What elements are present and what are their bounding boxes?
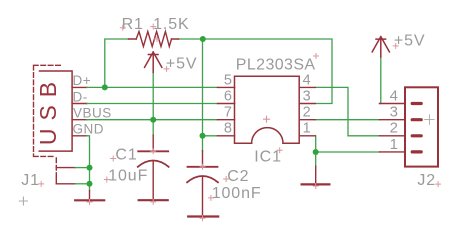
wire +5V right stem to J2 pin4 (380, 57, 381, 104)
ground bar below IC1 pin1 junction (302, 183, 330, 185)
wire IC pin4 to J2 pin2 (315, 87, 379, 135)
capacitor C2 top lead (202, 151, 204, 167)
ground pin below USB shield (89, 191, 91, 201)
pin D- stub (72, 103, 87, 105)
wire VBUS row (87, 119, 218, 121)
pin D+ stub (72, 86, 87, 88)
ground bar below USB shield (75, 199, 104, 201)
svg-text:5: 5 (224, 72, 232, 88)
10uF label origin cross (104, 177, 109, 182)
IC1 pin 3 stub (299, 103, 315, 105)
connector J1 USB body (39, 71, 72, 151)
wire shield stub 1 (75, 167, 89, 169)
USB gnd origin cross (87, 200, 92, 205)
J2 part origin cross (425, 115, 435, 125)
wire pin1 junction to ground (315, 152, 317, 166)
J2 pad 1 (412, 150, 421, 153)
resistor R1 leads (129, 38, 179, 40)
wire R1 junction down to pin8 junction (202, 39, 204, 136)
svg-text:100nF: 100nF (212, 185, 262, 202)
IC1 pin 4 stub (299, 86, 315, 88)
connector J1 shield corner (55, 179, 57, 184)
op IC1 PL2303SA box (235, 76, 300, 143)
C2 gnd origin cross (200, 216, 205, 221)
svg-text:+5V: +5V (166, 55, 198, 72)
wire +5V left stem (152, 72, 154, 119)
1.5K label origin cross (151, 24, 156, 29)
wire IC pin2 to J2 pin3 (315, 119, 379, 121)
power +5V left arrow (145, 52, 162, 72)
svg-text:C2: C2 (227, 168, 249, 185)
junction node D+/R1 (102, 84, 108, 90)
capacitor C1 bottom plate arc (138, 161, 169, 167)
+5V left origin cross (164, 66, 169, 71)
+5V right origin cross (393, 43, 398, 48)
svg-text:J2: J2 (417, 172, 436, 189)
wire VBUS junction down to C1 (152, 120, 154, 136)
IC1 notch arc (252, 128, 283, 144)
capacitor C2 top plate (188, 166, 218, 168)
junction node shield 1 (87, 165, 93, 171)
IC1 part origin cross (264, 116, 270, 122)
J1 part origin cross (19, 197, 27, 205)
svg-text:10uF: 10uF (108, 168, 148, 185)
ground below C1 (139, 199, 168, 201)
svg-text:1: 1 (390, 136, 398, 153)
svg-text:VBUS: VBUS (73, 105, 112, 120)
svg-text:+5V: +5V (394, 33, 426, 50)
shield pin stub 2 (56, 183, 75, 185)
IC1 label origin cross (277, 148, 282, 153)
resistor R1 body (136, 32, 171, 47)
svg-text:8: 8 (224, 121, 232, 137)
C2 origin cross (200, 164, 205, 169)
J2 pad 2 (412, 134, 421, 137)
connector J1 shield dashed stub column (55, 158, 57, 179)
IC1 pin 7 stub (218, 119, 235, 121)
svg-text:4: 4 (390, 87, 398, 104)
power +5V right arrow (372, 37, 389, 57)
pin VBUS stub (72, 119, 87, 121)
resistor R1 origin cross (155, 37, 160, 42)
IC1 pin 2 stub (299, 119, 315, 121)
svg-text:7: 7 (224, 105, 232, 121)
connector J2 box (405, 87, 438, 166)
svg-text:USB: USB (35, 74, 61, 145)
J2 pad 4 (412, 102, 421, 105)
wire pin8 junction to IC pin8 (203, 135, 218, 137)
ground below C2 (188, 215, 218, 217)
J2 pin 2 stub (380, 135, 406, 137)
PL2303SA label origin cross (314, 54, 319, 59)
capacitor C2 bottom plate arc (187, 176, 218, 182)
wire IC pin1 down (315, 136, 317, 152)
wire R1 right to IC pin3 corner (179, 39, 333, 104)
IC1 gnd origin cross (313, 184, 318, 189)
svg-text:IC1: IC1 (254, 149, 282, 166)
wire D- row (87, 103, 218, 105)
capacitor C1 top lead (152, 135, 154, 151)
capacitor C2 bottom lead (202, 177, 204, 217)
svg-text:1.5K: 1.5K (153, 16, 190, 33)
svg-text:D+: D+ (73, 73, 92, 88)
J2 pin 1 stub (380, 151, 406, 153)
C2 label origin cross (224, 177, 229, 182)
wire pin8 junction down to C2 (202, 136, 204, 151)
J2 label origin cross (436, 182, 441, 187)
connector J1 shield dashed outline (34, 65, 63, 156)
IC1 pin 8 stub (218, 135, 235, 137)
J2 pad 3 (412, 118, 421, 121)
svg-text:1: 1 (303, 121, 311, 137)
wire D+ row (87, 86, 218, 88)
wire GND to corner (87, 136, 90, 168)
IC1 pin 6 stub (218, 103, 235, 105)
C1 label origin cross (111, 156, 116, 161)
IC1 pin 1 stub (299, 135, 315, 137)
svg-text:C1: C1 (115, 146, 137, 163)
100nF label origin cross (208, 195, 213, 200)
svg-text:3: 3 (390, 104, 398, 121)
svg-text:R1: R1 (122, 16, 144, 33)
svg-text:2: 2 (303, 105, 311, 121)
J2 pin 4 stub (380, 103, 406, 105)
R1 label origin cross (120, 25, 125, 30)
C1 gnd origin cross (151, 199, 156, 204)
junction node VBUS/+5V/C1 (150, 117, 156, 123)
shield pin stub 1 (56, 167, 75, 169)
pin GND stub (72, 135, 87, 137)
wire D+ up to R1 (105, 39, 129, 87)
capacitor C1 top plate (138, 150, 168, 152)
junction node shield 2 (87, 181, 93, 187)
svg-text:PL2303SA: PL2303SA (236, 56, 316, 73)
wire pin1 junction to J2 pin1 (316, 151, 380, 153)
capacitor C1 bottom lead (152, 161, 154, 200)
ground pin below IC1 pin1 junction (315, 166, 317, 184)
J2 pin 3 stub (380, 119, 406, 121)
svg-text:2: 2 (390, 120, 398, 137)
svg-text:4: 4 (303, 72, 311, 88)
svg-text:3: 3 (303, 88, 311, 104)
IC1 pin 5 stub (218, 86, 235, 88)
wire shield junction column (89, 168, 91, 191)
junction node R1/+3V3 top (200, 36, 206, 42)
C1 origin cross (151, 149, 156, 154)
junction node pin8/C2 (200, 133, 206, 139)
wire shield stub 2 (75, 183, 89, 185)
junction node IC pin1/J2 pin1/GND (313, 149, 319, 155)
J1 label origin cross (39, 181, 44, 186)
svg-text:GND: GND (73, 122, 105, 137)
svg-text:D-: D- (73, 89, 88, 104)
svg-text:6: 6 (224, 88, 232, 104)
svg-text:J1: J1 (21, 172, 40, 189)
